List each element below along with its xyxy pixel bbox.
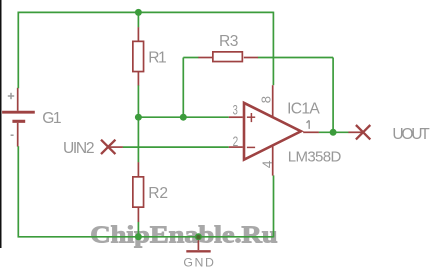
wire: R2 bottom to bottom rail xyxy=(137,222,139,237)
wire: top rail from left corner to right corner xyxy=(18,11,274,13)
resistor R3 xyxy=(198,52,258,62)
wire: to R3 left lead xyxy=(183,57,198,59)
wire: right rail down to opamp pin 8 xyxy=(272,12,274,86)
wire: opamp output to node C xyxy=(319,131,349,133)
op-amp IC1A xyxy=(229,85,319,175)
screenshot left border line xyxy=(0,0,2,248)
svg-text:R2: R2 xyxy=(148,185,168,202)
resistor R1 xyxy=(133,27,144,85)
wire: node A down to R2 xyxy=(137,117,139,162)
wire: feedback down to output node xyxy=(332,58,334,133)
UIN2 terminal lead xyxy=(108,146,123,148)
svg-text:ChipEnable.Ru: ChipEnable.Ru xyxy=(90,223,277,249)
UOUT terminal lead xyxy=(348,131,363,133)
ground symbol xyxy=(186,237,210,251)
wire: opamp pin 4 down to bottom rail xyxy=(273,175,275,237)
svg-text:4: 4 xyxy=(259,160,275,168)
junction dot: ground on bottom rail xyxy=(195,233,202,240)
battery minus symbol xyxy=(11,134,14,136)
pin number 1 xyxy=(307,120,310,128)
svg-text:G1: G1 xyxy=(42,110,61,127)
op-amp plus input mark xyxy=(247,113,255,122)
svg-text:IC1A: IC1A xyxy=(287,101,320,118)
svg-text:R1: R1 xyxy=(148,50,166,67)
wire: node A to opamp pin 3 xyxy=(138,116,228,118)
junction dot: node A (R1/R2/pin3) xyxy=(135,114,142,121)
wire: bottom rail xyxy=(18,236,274,238)
svg-text:LM358D: LM358D xyxy=(288,149,342,166)
svg-text:R3: R3 xyxy=(219,33,238,50)
UIN2 terminal X xyxy=(101,140,115,154)
battery plus symbol xyxy=(8,93,14,99)
battery G1 xyxy=(2,88,35,147)
ground junction overlap shading xyxy=(196,235,200,239)
wire: top junction down to R1 xyxy=(137,12,139,27)
svg-text:8: 8 xyxy=(259,96,274,103)
wire: left rail upper (corner to battery +) xyxy=(17,12,19,89)
wire: R3 right lead to feedback corner xyxy=(258,57,333,59)
wire: R1 bottom to node A xyxy=(137,85,139,117)
junction dot: top rail / R1 xyxy=(135,9,142,16)
op-amp minus input mark xyxy=(247,146,255,148)
junction dot: node B (R3 tap) xyxy=(180,114,187,121)
wire: node B up to R3 left xyxy=(182,58,184,118)
svg-text:UIN2: UIN2 xyxy=(63,140,95,157)
svg-text:UOUT: UOUT xyxy=(392,126,430,143)
junction dot: output node C xyxy=(330,129,337,136)
resistor R2 xyxy=(133,162,144,222)
svg-text:GND: GND xyxy=(183,256,214,270)
UOUT terminal X xyxy=(356,125,370,139)
wire: left rail lower (battery - to bottom corner) xyxy=(17,146,19,237)
junction dot: R2 bottom on bottom rail xyxy=(135,233,142,240)
svg-text:3: 3 xyxy=(233,102,238,118)
svg-text:2: 2 xyxy=(233,133,239,149)
wire: UIN2 to opamp pin 2 xyxy=(123,146,229,148)
